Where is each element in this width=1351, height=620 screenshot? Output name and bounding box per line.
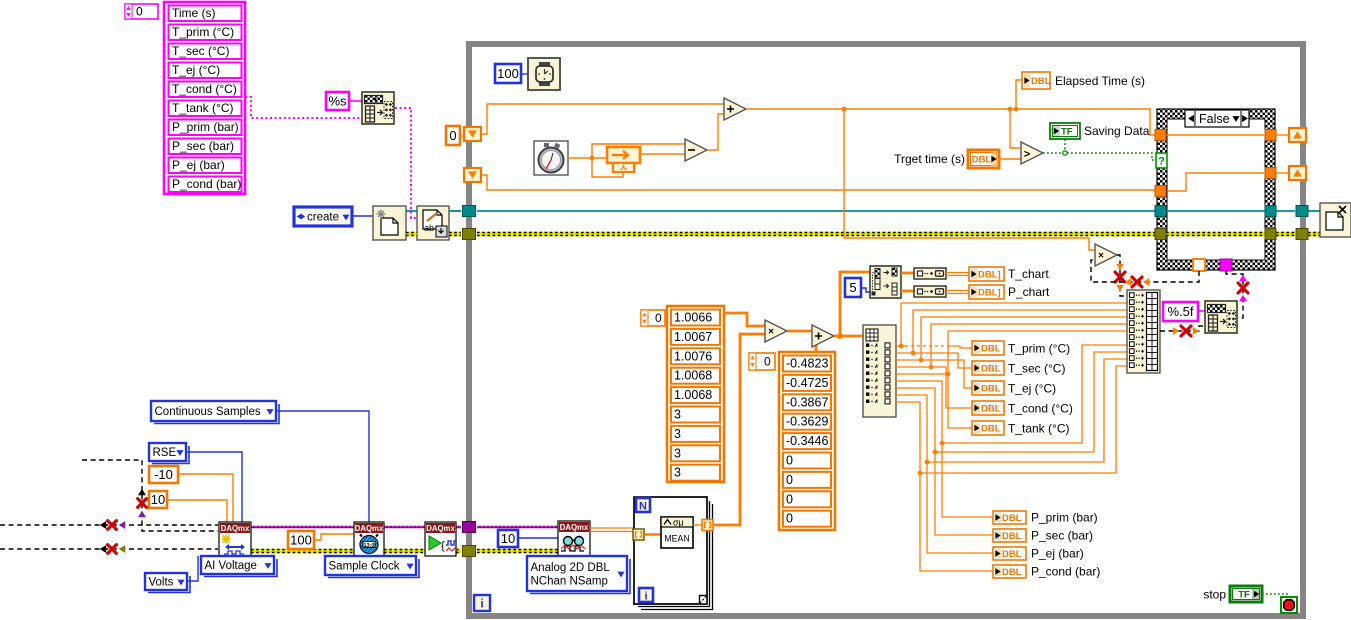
indicator P_prim (bar) <box>993 511 1098 525</box>
svg-text:DBL: DBL <box>1002 549 1022 560</box>
indicator Elapsed Time (s) <box>1022 72 1145 89</box>
svg-text:-10: -10 <box>154 467 173 482</box>
numeric constant 100 (rate) <box>288 531 314 549</box>
svg-text:DAQmx: DAQmx <box>355 524 384 533</box>
while loop border <box>468 43 1304 617</box>
control stop <box>1203 586 1262 602</box>
svg-text:RSE: RSE <box>153 447 177 459</box>
svg-text:T_chart: T_chart <box>1008 267 1049 281</box>
subtract node <box>685 139 707 161</box>
svg-text:100: 100 <box>290 533 312 548</box>
wire 10 to read <box>518 537 558 539</box>
svg-text:i: i <box>644 591 647 603</box>
reshape node T <box>914 268 946 279</box>
svg-text:False: False <box>1199 112 1230 126</box>
broken wire build array to format node <box>1160 326 1205 336</box>
wire 100 to timing <box>314 534 354 540</box>
indicator P_sec (bar) <box>993 529 1093 543</box>
enum RSE <box>149 443 189 464</box>
svg-text:3: 3 <box>674 446 681 460</box>
selector Sample Clock <box>325 556 419 578</box>
svg-text:σμ: σμ <box>673 518 684 528</box>
for loop count terminal N <box>636 498 650 513</box>
svg-text:-0.4725: -0.4725 <box>786 376 828 390</box>
case tunnels <box>1155 130 1276 272</box>
svg-text:P_prim (bar): P_prim (bar) <box>1031 511 1098 525</box>
open/create/replace file node <box>373 206 406 240</box>
svg-text:P_sec (bar): P_sec (bar) <box>1031 529 1093 543</box>
close file node <box>1320 203 1351 237</box>
svg-text:×: × <box>768 327 774 338</box>
shift register left upper <box>464 127 481 141</box>
selector Analog 2D DBL NChan NSamp <box>527 556 630 594</box>
svg-text:DBL: DBL <box>972 155 992 166</box>
add2 node <box>812 325 834 347</box>
wire trget to greater <box>999 158 1021 160</box>
svg-text:DBL: DBL <box>1031 76 1051 87</box>
wire subtract to add <box>707 114 724 150</box>
DAQmx create virtual channel node <box>219 522 251 556</box>
svg-text:3: 3 <box>674 466 681 480</box>
indicator Saving Data <box>1050 123 1150 139</box>
while loop iteration terminal i <box>474 595 490 611</box>
svg-text:DBL: DBL <box>981 364 1001 375</box>
numeric constant 5 <box>845 278 861 297</box>
svg-text:10: 10 <box>501 531 515 546</box>
svg-text:N: N <box>639 501 647 513</box>
wire feedback to subtract <box>640 153 685 155</box>
multiply node <box>765 320 787 342</box>
wire string array to spreadsheet-string node <box>245 97 362 118</box>
reshape node P <box>914 286 946 297</box>
wire mean array up to multiply <box>713 334 765 525</box>
svg-text:0: 0 <box>136 5 143 19</box>
add node (elapsed accumulate) <box>724 98 746 120</box>
broken wire multiply to build array <box>1115 255 1127 296</box>
wire gain array to multiply <box>724 313 765 326</box>
indicator T_prim (°C) <box>972 341 1070 356</box>
svg-text:{: { <box>441 540 445 552</box>
svg-text:0: 0 <box>449 128 456 143</box>
svg-text:DBL: DBL <box>1002 567 1022 578</box>
for loop left tunnel <box>633 529 644 540</box>
wire shift register upper to add <box>481 104 724 134</box>
svg-text:DBL: DBL <box>981 344 1001 355</box>
svg-text:DBL: DBL <box>1002 513 1022 524</box>
svg-text:create: create <box>307 212 339 224</box>
wire RSE to create channel <box>186 452 242 522</box>
wire continuous samples to timing <box>276 411 369 522</box>
svg-text:T_cond (°C): T_cond (°C) <box>1008 402 1073 416</box>
svg-text:1.0068: 1.0068 <box>674 369 712 383</box>
indicator P_ej (bar) <box>993 547 1084 561</box>
wire shift register lower across loop <box>481 175 1155 190</box>
svg-text:T_tank (°C): T_tank (°C) <box>172 101 233 115</box>
string constant %.5f <box>1163 302 1198 321</box>
for loop border <box>634 497 713 610</box>
svg-text:Volts: Volts <box>149 577 174 589</box>
build array node <box>1127 290 1160 373</box>
broken wire format node to case tunnel <box>1226 271 1248 318</box>
case selector terminal ? <box>1156 153 1167 168</box>
numeric constant 100 (wait) <box>495 64 521 83</box>
DAQmx timing node <box>354 522 384 556</box>
numeric constant -10 <box>149 466 178 483</box>
case selector label False <box>1185 110 1249 127</box>
svg-text:DBL: DBL <box>981 384 1001 395</box>
svg-text:10: 10 <box>151 492 165 507</box>
wire tunnel to mean <box>644 533 661 536</box>
svg-text:T_prim (°C): T_prim (°C) <box>172 25 234 39</box>
svg-text:1.0068: 1.0068 <box>674 388 712 402</box>
for loop right tunnel <box>702 520 713 531</box>
get date/time in seconds node (stopwatch) <box>534 141 568 175</box>
wires reshape to chart indicators <box>946 273 969 294</box>
wire stop to loop condition <box>1262 594 1288 597</box>
wires index array to T indicators and rails <box>896 303 1127 428</box>
svg-text:13:0: 13:0 <box>363 543 374 549</box>
svg-text:i: i <box>480 597 483 611</box>
svg-text:P_chart: P_chart <box>1008 285 1050 299</box>
wire 10 to create channel <box>167 500 227 522</box>
boolean wire to saving data and case selector <box>1043 139 1157 160</box>
svg-text:DAQmx: DAQmx <box>426 524 455 533</box>
indicator P_chart <box>969 285 1050 299</box>
for loop iteration terminal i <box>639 588 653 603</box>
svg-text:Elapsed Time (s): Elapsed Time (s) <box>1055 74 1145 88</box>
svg-text:P_ej (bar): P_ej (bar) <box>172 158 225 172</box>
index array node <box>863 325 896 417</box>
enum Volts <box>145 573 190 593</box>
svg-text:-0.3867: -0.3867 <box>786 395 828 409</box>
wire %.5f to format node <box>1198 310 1205 312</box>
feedback node <box>607 147 640 172</box>
wire mean to right tunnel <box>693 524 702 526</box>
case structure border <box>1157 109 1275 270</box>
svg-text:?: ? <box>1158 156 1165 168</box>
offset array constant <box>779 352 835 530</box>
broken wire daq input upper <box>0 521 218 530</box>
broken wire to physical channel <box>82 460 218 531</box>
string array constant (channel names) <box>164 2 245 194</box>
svg-text:1.0067: 1.0067 <box>674 330 712 344</box>
indicator P_cond (bar) <box>993 565 1100 579</box>
svg-text:P_cond (bar): P_cond (bar) <box>172 177 241 191</box>
svg-text:DAQmx: DAQmx <box>221 524 250 533</box>
svg-text:TF: TF <box>1238 590 1250 601</box>
indicator T_sec (°C) <box>972 361 1065 376</box>
2D array wire read to for loop <box>590 528 634 532</box>
gain array constant <box>667 306 724 482</box>
svg-text:T_sec (°C): T_sec (°C) <box>172 44 229 58</box>
svg-text:NChan NSamp: NChan NSamp <box>531 575 608 587</box>
enum Continuous Samples <box>151 401 279 424</box>
wire 0 to shift register <box>460 135 464 137</box>
svg-text:Sample Clock: Sample Clock <box>329 561 400 573</box>
svg-text:P_prim (bar): P_prim (bar) <box>172 120 239 134</box>
MEAN subVI <box>661 517 693 548</box>
svg-text:Saving Data: Saving Data <box>1084 124 1150 138</box>
svg-text:T_prim (°C): T_prim (°C) <box>1008 342 1070 356</box>
shift register left lower <box>464 168 481 182</box>
svg-text:%.5f: %.5f <box>1167 304 1193 319</box>
multiply node (time scale) <box>1095 244 1117 266</box>
svg-text:DBL: DBL <box>1002 531 1022 542</box>
svg-text:T_ej (°C): T_ej (°C) <box>172 63 220 77</box>
svg-text:-0.4823: -0.4823 <box>786 357 828 371</box>
wire multiply to add2 <box>787 330 812 333</box>
wire spreadsheet string to write-file node <box>395 108 417 218</box>
wire add2 out to index array and split <box>834 272 870 339</box>
svg-text:Continuous Samples: Continuous Samples <box>155 406 261 418</box>
string constant %s <box>326 92 349 110</box>
offset array index <box>749 353 775 370</box>
svg-text:1.0076: 1.0076 <box>674 349 712 363</box>
svg-text:1.0066: 1.0066 <box>674 311 712 325</box>
array-to-spreadsheet-string node <box>362 92 394 124</box>
svg-text:3: 3 <box>674 427 681 441</box>
svg-text:0: 0 <box>786 492 793 506</box>
wire 100 to wait <box>521 73 528 75</box>
svg-text:T_cond (°C): T_cond (°C) <box>172 82 237 96</box>
error cluster wire <box>406 232 1320 237</box>
shift register right lower <box>1289 166 1306 180</box>
svg-text:0: 0 <box>786 512 793 526</box>
svg-text:DAQmx: DAQmx <box>560 523 589 532</box>
numeric constant 10 <box>149 491 167 508</box>
split array node <box>870 266 901 298</box>
shift register right upper <box>1289 128 1306 142</box>
case inner wires <box>1166 135 1265 234</box>
svg-text:P_ej (bar): P_ej (bar) <box>1031 547 1084 561</box>
svg-text:100: 100 <box>497 66 519 81</box>
wait (ms) node <box>528 58 560 90</box>
DAQmx read node <box>558 521 590 556</box>
indicator T_chart <box>969 267 1049 281</box>
svg-text:P_sec (bar): P_sec (bar) <box>172 139 234 153</box>
selector AI Voltage <box>201 556 277 577</box>
svg-text:0: 0 <box>786 454 793 468</box>
gain array index <box>641 310 665 326</box>
svg-text:T_sec (°C): T_sec (°C) <box>1008 362 1065 376</box>
wire elapsed time main <box>746 80 1155 250</box>
numeric constant 10 (samples) <box>498 530 518 547</box>
file refnum wire (teal) <box>406 210 1320 212</box>
svg-text:Time (s): Time (s) <box>172 6 216 20</box>
wire 5 to split array <box>861 288 870 292</box>
svg-text:DBL]: DBL] <box>978 288 1001 299</box>
indicator T_tank (°C) <box>972 421 1069 436</box>
broken wire case tunnel to multiply <box>1091 260 1199 287</box>
string array index box <box>125 4 158 19</box>
svg-text:DBL]: DBL] <box>978 270 1001 281</box>
indicator T_cond (°C) <box>972 401 1073 416</box>
svg-text:DBL: DBL <box>981 404 1001 415</box>
wire offset array to add2 <box>812 341 816 353</box>
wire case to right shift registers <box>1276 135 1289 173</box>
loop border tunnels right (teal, error) <box>1296 206 1308 240</box>
wire stopwatch to feedback and subtract <box>568 144 685 177</box>
svg-text:T_ej (°C): T_ej (°C) <box>1008 382 1056 396</box>
wire create to open node <box>352 215 373 217</box>
svg-text:P_cond (bar): P_cond (bar) <box>1031 565 1100 579</box>
greater-than node <box>1021 142 1043 164</box>
svg-text:MEAN: MEAN <box>664 534 689 544</box>
svg-text:ab: ab <box>424 223 434 233</box>
svg-text:T_tank (°C): T_tank (°C) <box>1008 422 1069 436</box>
DAQmx start task node <box>425 522 457 556</box>
numeric constant 0 (elapsed init) <box>446 126 460 145</box>
svg-text:stop: stop <box>1203 588 1226 602</box>
wire volts to create channel <box>187 556 198 581</box>
svg-text:>: > <box>1024 149 1030 161</box>
loop border tunnels left (teal, error, task, error2) <box>463 206 476 557</box>
svg-text:-0.3629: -0.3629 <box>786 415 828 429</box>
svg-text:TF: TF <box>1061 127 1073 138</box>
loop condition terminal (stop sign) <box>1281 597 1297 613</box>
wire -10 to create channel <box>178 474 233 522</box>
svg-text:5: 5 <box>849 280 856 295</box>
indicator T_ej (°C) <box>972 381 1056 396</box>
svg-text:DBL: DBL <box>981 424 1001 435</box>
svg-text:Trget time (s): Trget time (s) <box>894 152 965 166</box>
svg-text:×: × <box>1098 251 1104 262</box>
write to text file node <box>417 206 449 240</box>
svg-text:Analog 2D DBL: Analog 2D DBL <box>531 562 611 574</box>
broken wire daq input lower <box>0 545 218 554</box>
control Trget time (s) <box>894 150 999 168</box>
svg-text:AI Voltage: AI Voltage <box>205 560 257 572</box>
wires split to reshape <box>901 273 914 291</box>
enum constant create <box>294 207 352 226</box>
array-to-spreadsheet-string node 2 <box>1205 301 1237 333</box>
task/error wires daq chain <box>251 526 558 551</box>
svg-text:3: 3 <box>674 408 681 422</box>
svg-text:0: 0 <box>764 355 771 369</box>
svg-text:%s: %s <box>328 94 347 109</box>
svg-text:0: 0 <box>786 473 793 487</box>
svg-text:0: 0 <box>655 311 662 325</box>
wire %s to node <box>349 100 362 102</box>
wires index array to P indicators and rails <box>896 345 1127 571</box>
svg-text:-0.3446: -0.3446 <box>786 434 828 448</box>
